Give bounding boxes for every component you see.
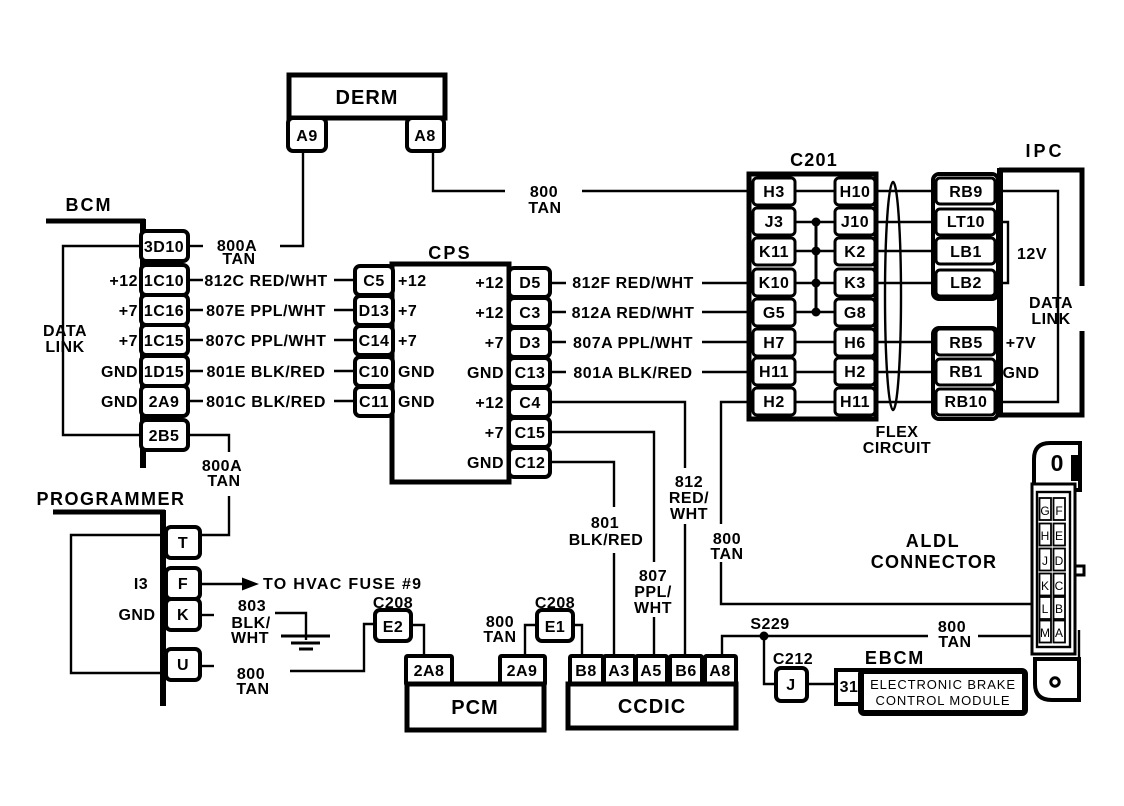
svg-text:H10: H10 [840,184,871,201]
svg-text:TAN: TAN [710,546,743,563]
svg-text:1C15: 1C15 [144,333,184,350]
svg-text:1C16: 1C16 [144,303,184,320]
svg-text:GND: GND [467,365,504,382]
svg-text:803: 803 [238,598,266,615]
svg-text:CIRCUIT: CIRCUIT [863,440,931,457]
svg-text:S229: S229 [750,616,789,633]
svg-text:K11: K11 [759,244,789,261]
svg-text:C: C [1055,579,1064,593]
svg-text:D3: D3 [519,335,540,352]
svg-text:CPS: CPS [428,243,472,263]
svg-text:K2: K2 [844,244,865,261]
svg-text:TO HVAC FUSE #9: TO HVAC FUSE #9 [263,576,422,593]
svg-text:812F RED/WHT: 812F RED/WHT [572,275,694,292]
svg-text:812: 812 [675,474,703,491]
svg-text:H2: H2 [763,394,784,411]
svg-text:3D10: 3D10 [144,239,184,256]
svg-text:WHT: WHT [231,630,269,647]
svg-text:C12: C12 [515,455,546,472]
svg-text:A8: A8 [709,663,730,680]
svg-text:+12: +12 [475,275,504,292]
svg-text:K: K [1041,579,1049,593]
svg-text:J: J [786,677,795,694]
svg-text:I3: I3 [134,576,148,593]
svg-text:RB1: RB1 [949,364,983,381]
svg-text:WHT: WHT [670,506,708,523]
svg-text:C208: C208 [535,595,575,612]
svg-text:CONNECTOR: CONNECTOR [871,552,997,572]
svg-text:TAN: TAN [528,200,561,217]
svg-text:+7: +7 [398,303,417,320]
svg-text:E: E [1055,529,1063,543]
svg-text:H3: H3 [763,184,784,201]
svg-text:+7: +7 [398,333,417,350]
svg-text:GND: GND [101,394,138,411]
svg-text:K3: K3 [844,275,865,292]
svg-text:801E BLK/RED: 801E BLK/RED [207,364,326,381]
svg-text:1C10: 1C10 [144,273,184,290]
svg-text:M: M [1040,626,1050,640]
svg-text:ELECTRONIC BRAKE: ELECTRONIC BRAKE [870,677,1016,692]
svg-text:F: F [1055,504,1062,518]
svg-text:+7: +7 [119,303,138,320]
svg-text:2A9: 2A9 [149,394,180,411]
svg-text:12V: 12V [1017,246,1047,263]
svg-text:C14: C14 [359,333,390,350]
svg-text:TAN: TAN [222,251,255,268]
svg-text:GND: GND [1002,365,1039,382]
svg-text:CCDIC: CCDIC [618,696,686,718]
svg-text:DERM: DERM [336,87,399,109]
svg-text:K10: K10 [759,275,790,292]
svg-text:PROGRAMMER: PROGRAMMER [37,489,186,509]
svg-text:TAN: TAN [938,634,971,651]
svg-text:D13: D13 [359,303,390,320]
svg-text:C208: C208 [373,595,413,612]
svg-text:BLK/RED: BLK/RED [569,532,644,549]
svg-text:+7V: +7V [1006,335,1036,352]
svg-text:U: U [177,657,189,674]
svg-text:K: K [177,607,189,624]
svg-text:LINK: LINK [1031,311,1070,328]
svg-text:B: B [1055,602,1063,616]
svg-text:807: 807 [639,568,667,585]
svg-text:812C RED/WHT: 812C RED/WHT [204,273,327,290]
svg-text:+12: +12 [398,273,427,290]
svg-text:+12: +12 [475,305,504,322]
svg-text:LINK: LINK [45,339,84,356]
svg-text:J3: J3 [765,214,784,231]
svg-text:801A BLK/RED: 801A BLK/RED [573,365,692,382]
svg-text:GND: GND [467,455,504,472]
svg-text:31: 31 [840,679,859,696]
svg-text:RED/: RED/ [669,490,709,507]
svg-text:C201: C201 [790,150,838,170]
svg-text:E1: E1 [545,619,566,636]
svg-text:+12: +12 [109,273,138,290]
svg-text:B8: B8 [575,663,596,680]
svg-text:GND: GND [398,394,435,411]
svg-text:H: H [1041,529,1050,543]
svg-text:LB2: LB2 [950,275,982,292]
svg-text:TAN: TAN [207,473,240,490]
svg-text:J10: J10 [841,214,869,231]
svg-text:C10: C10 [359,364,390,381]
svg-text:C11: C11 [359,394,389,411]
svg-text:+7: +7 [485,335,504,352]
svg-text:LT10: LT10 [947,214,985,231]
svg-text:C15: C15 [515,425,546,442]
svg-text:TAN: TAN [236,681,269,698]
svg-text:C4: C4 [519,395,540,412]
svg-text:L: L [1042,602,1049,616]
svg-text:EBCM: EBCM [865,648,925,668]
svg-text:D: D [1055,554,1064,568]
svg-text:G8: G8 [844,305,866,322]
svg-text:C13: C13 [515,365,546,382]
svg-text:F: F [178,576,188,593]
svg-text:CONTROL MODULE: CONTROL MODULE [876,693,1011,708]
svg-text:812A RED/WHT: 812A RED/WHT [572,305,695,322]
svg-text:GND: GND [398,364,435,381]
svg-text:A: A [1055,626,1063,640]
svg-text:807E PPL/WHT: 807E PPL/WHT [206,303,326,320]
svg-text:WHT: WHT [634,600,672,617]
svg-text:+7: +7 [485,425,504,442]
svg-text:G: G [1040,504,1049,518]
svg-text:C212: C212 [773,651,813,668]
svg-text:IPC: IPC [1025,141,1064,161]
svg-text:800: 800 [530,184,558,201]
svg-text:D5: D5 [519,275,540,292]
svg-text:B6: B6 [675,663,696,680]
svg-text:A5: A5 [640,663,661,680]
svg-text:DATA: DATA [1029,295,1073,312]
svg-text:PCM: PCM [451,697,498,719]
svg-text:+7: +7 [119,333,138,350]
svg-text:RB10: RB10 [945,394,988,411]
svg-text:H11: H11 [840,394,870,411]
svg-text:LB1: LB1 [950,244,982,261]
svg-text:A3: A3 [608,663,629,680]
svg-text:DATA: DATA [43,323,87,340]
svg-text:C5: C5 [363,273,384,290]
svg-text:0: 0 [1051,450,1064,476]
svg-text:H11: H11 [759,364,789,381]
svg-text:PPL/: PPL/ [634,584,672,601]
svg-text:GND: GND [101,364,138,381]
svg-text:2A8: 2A8 [414,663,445,680]
svg-text:H6: H6 [844,335,865,352]
svg-text:C3: C3 [519,305,540,322]
svg-text:T: T [178,535,188,552]
svg-text:J: J [1042,554,1048,568]
svg-text:2A9: 2A9 [507,663,538,680]
svg-text:A8: A8 [414,128,435,145]
svg-text:G5: G5 [763,305,785,322]
svg-text:GND: GND [118,607,155,624]
svg-text:H2: H2 [844,364,865,381]
svg-text:ALDL: ALDL [906,531,960,551]
svg-text:A9: A9 [296,128,317,145]
svg-text:FLEX: FLEX [876,424,919,441]
svg-text:H7: H7 [763,335,784,352]
svg-text:1D15: 1D15 [144,364,184,381]
svg-text:801C BLK/RED: 801C BLK/RED [206,394,326,411]
svg-text:2B5: 2B5 [149,428,180,445]
svg-text:TAN: TAN [483,629,516,646]
svg-text:+12: +12 [475,395,504,412]
svg-text:801: 801 [591,515,619,532]
svg-text:807A PPL/WHT: 807A PPL/WHT [573,335,693,352]
svg-text:RB9: RB9 [949,184,983,201]
svg-text:E2: E2 [383,619,404,636]
svg-text:807C PPL/WHT: 807C PPL/WHT [206,333,327,350]
svg-text:RB5: RB5 [949,335,983,352]
svg-text:BCM: BCM [66,195,113,215]
